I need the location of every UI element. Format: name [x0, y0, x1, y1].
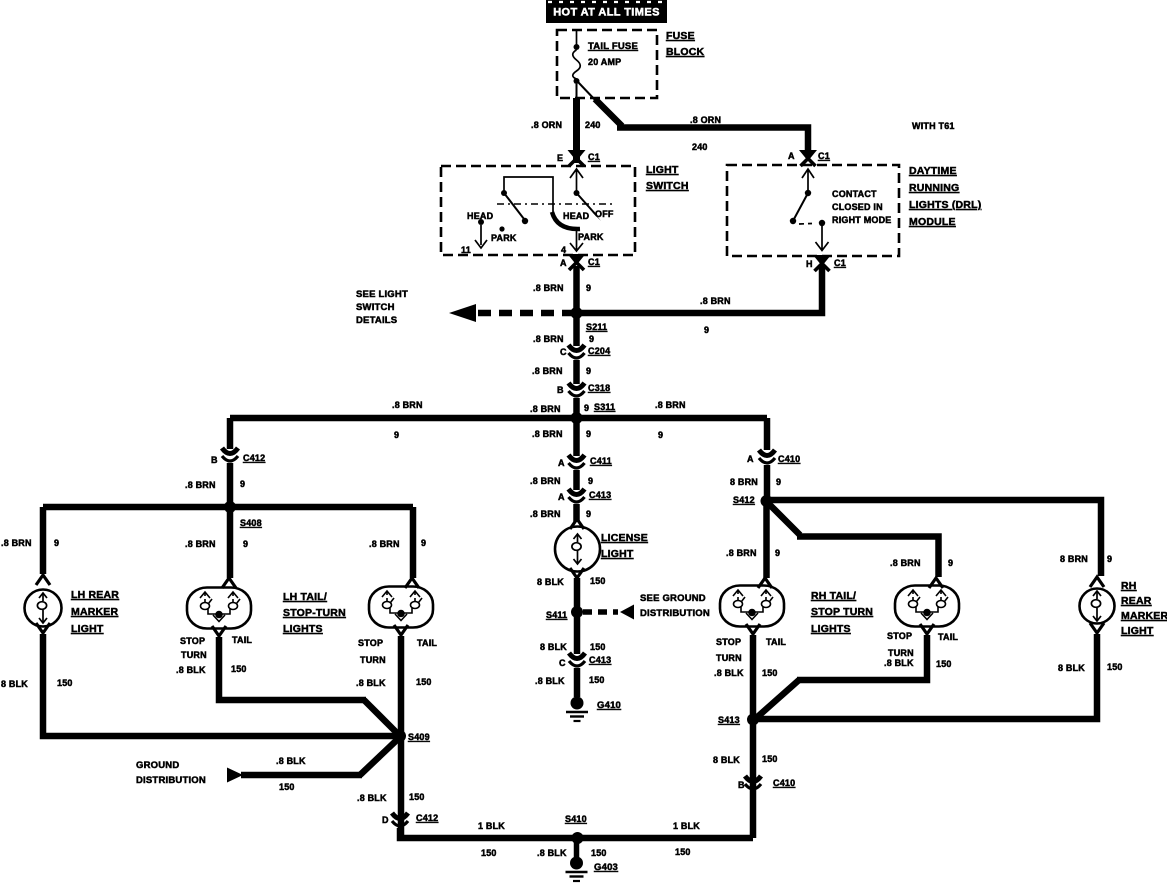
- pin 11 stub: [475, 225, 487, 248]
- svg-text:C: C: [560, 347, 567, 357]
- svg-text:.8 BLK: .8 BLK: [535, 676, 565, 686]
- lamp: LH rear marker light: [25, 590, 62, 627]
- svg-text:SEE GROUND: SEE GROUND: [640, 593, 706, 604]
- svg-text:DISTRIBUTION: DISTRIBUTION: [640, 608, 710, 619]
- terminal license light feed: [570, 519, 584, 529]
- svg-text:.8 BRN: .8 BRN: [726, 548, 757, 558]
- svg-text:HOT AT ALL TIMES: HOT AT ALL TIMES: [553, 7, 660, 19]
- wire RH marker to S413: [753, 634, 1097, 719]
- terminal license light ground: [570, 568, 584, 578]
- svg-text:FUSE: FUSE: [666, 30, 695, 42]
- svg-text:.8 ORN: .8 ORN: [690, 115, 721, 125]
- connector A C1 (DRL module feed): [799, 150, 817, 166]
- svg-text:LIGHT: LIGHT: [601, 548, 634, 560]
- fuse block box: [557, 30, 657, 98]
- svg-text:9: 9: [586, 283, 591, 293]
- svg-text:150: 150: [675, 847, 691, 857]
- connector H C1 (DRL module output): [813, 255, 831, 271]
- svg-text:150: 150: [57, 678, 73, 688]
- svg-text:C1: C1: [818, 151, 830, 161]
- svg-text:LICENSE: LICENSE: [601, 532, 648, 544]
- mechanical coupling line (dash-dot): [497, 203, 612, 205]
- svg-text:1 BLK: 1 BLK: [478, 821, 505, 831]
- svg-text:.8 BRN: .8 BRN: [530, 509, 561, 519]
- splice S412: [761, 495, 773, 507]
- terminal RH marker feed: [1090, 577, 1104, 587]
- svg-text:150: 150: [590, 576, 606, 586]
- lamp LH tail/stop-turn light 2: [369, 587, 433, 628]
- svg-text:.8 BRN: .8 BRN: [890, 558, 921, 568]
- svg-text:9: 9: [776, 477, 781, 487]
- svg-text:.8 BLK: .8 BLK: [884, 658, 914, 668]
- svg-text:8 BRN: 8 BRN: [730, 477, 758, 487]
- svg-text:.8 BLK: .8 BLK: [357, 793, 387, 803]
- svg-text:150: 150: [231, 664, 247, 674]
- terminal RH tail 2 ground: [920, 624, 934, 634]
- svg-text:LIGHTS (DRL): LIGHTS (DRL): [909, 199, 981, 211]
- svg-text:150: 150: [590, 642, 606, 652]
- svg-text:TAIL: TAIL: [232, 635, 252, 645]
- wire S211 to C204: [573, 313, 580, 346]
- wire diagonal to S409: [360, 737, 400, 775]
- lamp: RH rear marker light: [1080, 589, 1115, 624]
- wire fuse to DRL module (diagonal branch): [578, 82, 597, 102]
- wire LH marker to S409: [43, 634, 400, 736]
- DRL internal contact: [802, 169, 814, 193]
- svg-text:TURN: TURN: [181, 650, 207, 660]
- svg-text:150: 150: [416, 677, 432, 687]
- wire S412 to RH rear marker: [767, 500, 1102, 576]
- lamp RH tail/stop-turn light 2: [895, 586, 959, 627]
- svg-text:G410: G410: [597, 700, 621, 711]
- wire C413 to G410: [574, 668, 581, 697]
- wire DRL H to S211: [577, 266, 823, 313]
- terminal LH tail 1 feed: [222, 578, 236, 588]
- license light filament: [572, 534, 582, 564]
- svg-text:.8 BRN: .8 BRN: [533, 283, 564, 293]
- svg-text:9: 9: [586, 429, 591, 439]
- wire S410 to G403: [574, 838, 580, 858]
- svg-text:MARKER: MARKER: [1121, 610, 1167, 622]
- wire C204 to C318: [573, 360, 580, 384]
- svg-text:RH: RH: [1121, 580, 1137, 592]
- svg-text:8 BLK: 8 BLK: [540, 642, 567, 652]
- svg-text:C: C: [559, 658, 566, 668]
- svg-text:OFF: OFF: [595, 209, 614, 219]
- svg-text:.8 BRN: .8 BRN: [369, 539, 400, 549]
- svg-text:G403: G403: [594, 862, 618, 873]
- svg-text:150: 150: [762, 668, 778, 678]
- svg-text:9: 9: [704, 325, 709, 335]
- splice S410: [572, 832, 584, 844]
- wire LH tail 2 down through S409 to rail: [398, 636, 405, 838]
- svg-text:S211: S211: [586, 322, 607, 332]
- svg-text:STOP: STOP: [716, 637, 741, 647]
- svg-text:TAIL: TAIL: [766, 637, 786, 647]
- svg-text:9: 9: [588, 476, 593, 486]
- svg-text:A: A: [558, 492, 565, 502]
- svg-text:REAR: REAR: [1121, 595, 1152, 607]
- svg-text:RUNNING: RUNNING: [909, 182, 959, 194]
- svg-text:STOP TURN: STOP TURN: [811, 606, 873, 618]
- svg-text:H: H: [806, 259, 813, 269]
- svg-text:150: 150: [481, 848, 497, 858]
- svg-text:.8 BRN: .8 BRN: [530, 476, 561, 486]
- svg-text:9: 9: [421, 538, 426, 548]
- terminal RH tail 2 feed: [929, 578, 943, 588]
- svg-text:9: 9: [658, 430, 663, 440]
- wire to output A with arrow: [570, 231, 583, 251]
- svg-text:9: 9: [243, 539, 248, 549]
- svg-text:C412: C412: [243, 453, 265, 463]
- svg-text:CONTACT: CONTACT: [832, 189, 877, 199]
- svg-text:9: 9: [775, 548, 780, 558]
- svg-text:HEAD: HEAD: [563, 211, 590, 221]
- svg-text:11: 11: [461, 245, 471, 255]
- svg-text:20 AMP: 20 AMP: [588, 57, 621, 67]
- svg-text:C412: C412: [416, 813, 438, 823]
- light switch box: [441, 166, 635, 255]
- svg-text:.8 ORN: .8 ORN: [531, 120, 562, 130]
- switch blade to OFF: [577, 193, 598, 216]
- terminal RH tail 1 feed: [758, 578, 772, 588]
- wire S408 horizontal: [43, 504, 413, 511]
- svg-text:S409: S409: [408, 732, 430, 742]
- svg-text:LH REAR: LH REAR: [71, 589, 119, 601]
- terminal LH tail 2 feed: [405, 578, 419, 588]
- RH marker filament: [1091, 591, 1101, 621]
- svg-text:.8 BLK: .8 BLK: [356, 678, 386, 688]
- svg-text:TURN: TURN: [360, 655, 386, 665]
- svg-text:A: A: [747, 454, 754, 464]
- svg-text:DAYTIME: DAYTIME: [909, 165, 957, 177]
- svg-text:.8 BLK: .8 BLK: [714, 668, 744, 678]
- svg-text:S408: S408: [240, 518, 262, 528]
- svg-text:9: 9: [54, 538, 59, 548]
- wire RH tail 2 ground: [797, 635, 927, 680]
- svg-text:RIGHT MODE: RIGHT MODE: [832, 215, 892, 225]
- svg-text:C410: C410: [773, 778, 795, 788]
- svg-text:9: 9: [589, 334, 594, 344]
- wire S411 to C413: [574, 612, 581, 654]
- svg-text:MODULE: MODULE: [909, 216, 956, 228]
- wire S412 diagonal to RH tail 2: [768, 503, 800, 535]
- connector C413 (feed): [569, 489, 585, 502]
- splice S211: [571, 307, 583, 319]
- svg-text:8 BLK: 8 BLK: [1, 679, 28, 689]
- svg-text:9: 9: [1107, 554, 1112, 564]
- svg-text:LIGHT: LIGHT: [1121, 625, 1154, 637]
- light switch internal: feed arrow and common pole: [570, 169, 583, 193]
- wire light switch A to S211: [573, 266, 580, 313]
- connector C412 (LH feed): [222, 448, 238, 461]
- svg-text:S413: S413: [718, 715, 740, 725]
- svg-text:SWITCH: SWITCH: [356, 302, 395, 313]
- wire C412 to S408: [227, 463, 234, 507]
- terminal LH marker ground: [36, 623, 50, 633]
- svg-text:A: A: [558, 458, 565, 468]
- LH marker filament: [37, 593, 47, 623]
- svg-text:SEE LIGHT: SEE LIGHT: [356, 289, 408, 300]
- svg-text:.8 BRN: .8 BRN: [655, 400, 686, 410]
- wire C410 to S412: [764, 465, 771, 501]
- svg-text:C204: C204: [588, 346, 610, 356]
- svg-text:C411: C411: [590, 456, 612, 466]
- wire S412 to RH tail light 1: [763, 501, 770, 578]
- svg-text:9: 9: [240, 479, 245, 489]
- wire fuse to light switch E: [573, 98, 580, 163]
- svg-text:150: 150: [279, 782, 295, 792]
- svg-text:MARKER: MARKER: [71, 606, 118, 618]
- svg-text:TURN: TURN: [716, 653, 742, 663]
- svg-text:.8 BRN: .8 BRN: [392, 400, 423, 410]
- svg-text:D: D: [382, 815, 389, 825]
- connector A C1 (light switch output): [568, 254, 586, 270]
- svg-text:B: B: [557, 385, 564, 395]
- svg-text:.8 BRN: .8 BRN: [185, 480, 216, 490]
- svg-text:BLOCK: BLOCK: [666, 46, 705, 58]
- svg-text:LIGHTS: LIGHTS: [811, 623, 851, 635]
- splice S413: [747, 714, 759, 726]
- svg-text:GROUND: GROUND: [136, 760, 179, 771]
- svg-text:.8 BRN: .8 BRN: [533, 334, 564, 344]
- wire LH tail 1 to S409: [219, 637, 366, 700]
- wire C413 to license light: [573, 504, 580, 522]
- wire S311 to C411: [573, 418, 580, 456]
- park contact bridge arc: [552, 212, 580, 229]
- lamp LH tail/stop-turn light 1: [187, 588, 251, 629]
- svg-text:240: 240: [692, 142, 708, 152]
- wire trunk to C410: [764, 418, 771, 450]
- svg-text:9: 9: [584, 403, 589, 413]
- wire license light to S411: [574, 578, 581, 612]
- svg-text:.8 BRN: .8 BRN: [1, 538, 32, 548]
- svg-text:150: 150: [591, 848, 607, 858]
- lamp: license light: [555, 527, 600, 572]
- wire to DRL A C1: [617, 128, 808, 153]
- svg-text:S411: S411: [546, 610, 567, 620]
- svg-text:S412: S412: [733, 495, 755, 505]
- svg-text:STOP: STOP: [358, 638, 383, 648]
- svg-text:WITH T61: WITH T61: [912, 121, 955, 131]
- svg-text:RH TAIL/: RH TAIL/: [811, 590, 856, 602]
- svg-text:STOP-TURN: STOP-TURN: [283, 607, 346, 619]
- wire diagonal into S413: [755, 680, 799, 719]
- svg-text:.8 BLK: .8 BLK: [276, 756, 306, 766]
- splice S409: [394, 730, 406, 742]
- connector C411: [569, 455, 585, 468]
- svg-text:9: 9: [948, 558, 953, 568]
- svg-text:150: 150: [409, 792, 425, 802]
- terminal RH tail 1 ground: [746, 624, 760, 634]
- svg-text:E: E: [557, 153, 563, 163]
- svg-text:C410: C410: [778, 454, 800, 464]
- svg-text:S311: S311: [594, 402, 615, 412]
- daytime running lights module box: [727, 165, 899, 256]
- wire C411 to C413: [573, 470, 580, 490]
- svg-text:.8 BRN: .8 BRN: [530, 404, 561, 414]
- svg-text:.8 BRN: .8 BRN: [532, 429, 563, 439]
- left switch blade: [504, 193, 524, 219]
- wire ground distribution: [241, 772, 362, 779]
- svg-text:9: 9: [394, 430, 399, 440]
- svg-text:LH TAIL/: LH TAIL/: [283, 591, 327, 603]
- svg-text:TAIL FUSE: TAIL FUSE: [588, 41, 638, 52]
- connector C410 (RH feed): [759, 450, 775, 463]
- svg-text:C318: C318: [588, 383, 610, 393]
- svg-text:C413: C413: [589, 655, 611, 665]
- wire S408 to LH rear marker light: [40, 507, 47, 574]
- svg-text:STOP: STOP: [887, 631, 912, 641]
- svg-text:TURN: TURN: [888, 648, 914, 658]
- fuse TAIL FUSE 20 AMP: [576, 30, 578, 47]
- svg-text:B: B: [211, 455, 218, 465]
- terminal RH marker ground: [1090, 623, 1104, 633]
- connector C318: [569, 383, 585, 396]
- wire diagonal into S409: [364, 700, 400, 736]
- svg-text:150: 150: [936, 659, 952, 669]
- connector C412 (LH ground): [392, 813, 408, 826]
- wire bottom ground rail: [400, 828, 753, 838]
- dashed wire: see ground distribution: [583, 609, 618, 615]
- terminal LH tail 2 ground: [394, 625, 408, 635]
- wire S311 horizontal trunk: [230, 415, 767, 422]
- svg-text:DISTRIBUTION: DISTRIBUTION: [136, 775, 206, 786]
- splice S411: [571, 606, 583, 618]
- light switch internal: left pole linkage: [504, 177, 553, 214]
- svg-text:DETAILS: DETAILS: [356, 315, 397, 326]
- svg-text:CLOSED IN: CLOSED IN: [832, 202, 883, 212]
- svg-text:.8 BRN: .8 BRN: [700, 296, 731, 306]
- terminal LH marker feed: [36, 575, 50, 585]
- svg-text:.8 BLK: .8 BLK: [537, 848, 567, 858]
- svg-text:PARK: PARK: [491, 233, 517, 243]
- svg-text:150: 150: [762, 754, 778, 764]
- node HOT AT ALL TIMES power banner: [546, 0, 667, 23]
- svg-text:A: A: [560, 258, 567, 268]
- svg-text:150: 150: [1107, 662, 1123, 672]
- connector C410 (RH ground): [745, 776, 761, 789]
- svg-text:TAIL: TAIL: [417, 638, 437, 648]
- svg-text:LIGHT: LIGHT: [646, 164, 679, 176]
- svg-text:STOP: STOP: [180, 636, 205, 646]
- svg-text:150: 150: [589, 675, 605, 685]
- svg-text:LIGHT: LIGHT: [71, 623, 104, 635]
- svg-text:.8 BRN: .8 BRN: [532, 366, 563, 376]
- wire RH tail 1 down through S413 to rail: [750, 635, 757, 838]
- svg-text:SWITCH: SWITCH: [646, 180, 689, 192]
- connector C413 (ground side): [569, 653, 585, 666]
- svg-text:PARK: PARK: [578, 232, 604, 242]
- svg-text:LIGHTS: LIGHTS: [283, 623, 323, 635]
- svg-text:C1: C1: [834, 258, 846, 268]
- svg-text:C413: C413: [589, 490, 611, 500]
- svg-text:1 BLK: 1 BLK: [673, 821, 700, 831]
- wire C318 to S311: [573, 398, 580, 418]
- svg-text:8 BLK: 8 BLK: [713, 755, 740, 765]
- wire trunk to C412: [227, 418, 234, 449]
- svg-text:TAIL: TAIL: [938, 632, 958, 642]
- connector E C1 (light switch feed): [568, 150, 586, 166]
- dashed wire: see light switch details: [473, 310, 575, 317]
- wire S408 to LH tail light 1: [227, 507, 234, 578]
- ground G403: [566, 857, 588, 882]
- svg-text:B: B: [738, 780, 745, 790]
- svg-text:8 BLK: 8 BLK: [1058, 663, 1085, 673]
- wire S408 to LH tail light 2: [410, 507, 417, 578]
- svg-text:4: 4: [561, 245, 566, 255]
- svg-text:8 BRN: 8 BRN: [1060, 554, 1088, 564]
- splice S408: [224, 501, 236, 513]
- svg-text:8 BLK: 8 BLK: [537, 577, 564, 587]
- svg-text:A: A: [788, 151, 795, 161]
- svg-text:S410: S410: [565, 814, 587, 824]
- svg-text:.8 BRN: .8 BRN: [185, 539, 216, 549]
- svg-text:240: 240: [585, 120, 601, 130]
- terminal LH tail 1 ground: [212, 626, 226, 636]
- svg-text:.8 BLK: .8 BLK: [176, 665, 206, 675]
- connector C204: [569, 345, 585, 358]
- splice S311: [571, 412, 583, 424]
- wire to RH tail light 2: [797, 537, 939, 578]
- svg-text:9: 9: [586, 509, 591, 519]
- svg-text:9: 9: [586, 366, 591, 376]
- lamp RH tail/stop-turn light 1: [720, 586, 784, 627]
- ground G410: [566, 697, 588, 722]
- svg-text:C1: C1: [588, 257, 600, 267]
- svg-text:C1: C1: [588, 152, 600, 162]
